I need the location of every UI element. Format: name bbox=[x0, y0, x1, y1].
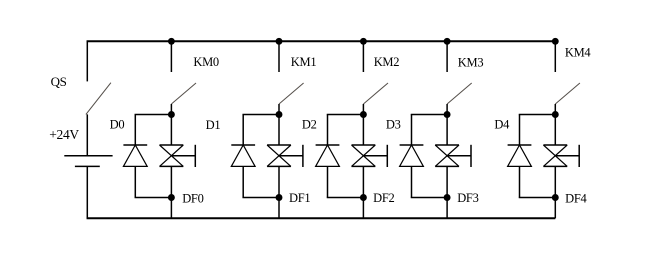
label KM2 bbox=[374, 55, 400, 69]
svg-text:DF1: DF1 bbox=[289, 191, 310, 205]
junction: top bus / branch 0 bbox=[168, 38, 175, 45]
label DF3 bbox=[457, 191, 478, 205]
wire: diode branch to lower node (horizontal) bbox=[519, 197, 556, 199]
wire: top stub of contact KM3 bbox=[446, 41, 448, 72]
svg-text:DF2: DF2 bbox=[373, 191, 394, 205]
wire: diode branch to lower node (horizontal) bbox=[411, 197, 447, 199]
wire: upper node to diode D1 (horizontal + down) bbox=[242, 115, 279, 146]
svg-text:DF3: DF3 bbox=[457, 191, 478, 205]
contact KM2 (NO contact blade) bbox=[363, 83, 388, 104]
contact KM3 (NO contact blade) bbox=[447, 83, 472, 104]
label +24V bbox=[49, 127, 79, 142]
label D4 bbox=[494, 118, 510, 132]
label D2 bbox=[302, 118, 317, 132]
junction/node DF2 bbox=[360, 194, 367, 201]
switch QS (disconnect blade) bbox=[86, 83, 111, 115]
triac/bidirectional device of branch 1 (bowtie with gate bar) bbox=[267, 145, 303, 167]
wire: left rail upper segment (top bus to QS) bbox=[86, 41, 88, 81]
junction: upper node of branch 0 bbox=[168, 111, 175, 118]
wire: diode branch to lower node (horizontal) bbox=[327, 197, 364, 199]
svg-text:KM4: KM4 bbox=[565, 45, 592, 59]
wire: upper node to diode D3 (horizontal + down) bbox=[411, 115, 447, 146]
wire: battery negative to bottom bus bbox=[86, 166, 88, 218]
wire: top stub of contact KM0 bbox=[170, 41, 172, 72]
contact KM1 (NO contact blade) bbox=[279, 83, 304, 104]
wire: node DF1 to bottom bus bbox=[278, 198, 280, 219]
wire: top stub of contact KM4 bbox=[554, 41, 556, 72]
label KM0 bbox=[193, 55, 219, 69]
junction: top bus / branch 1 bbox=[276, 38, 283, 45]
svg-text:+24V: +24V bbox=[49, 127, 79, 142]
triac/bidirectional device of branch 3 (bowtie with gate bar) bbox=[435, 145, 471, 167]
wire: contact KM3 to node row bbox=[446, 104, 448, 115]
svg-text:D1: D1 bbox=[206, 118, 221, 132]
junction/node DF4 bbox=[552, 194, 559, 201]
junction: upper node of branch 2 bbox=[360, 111, 367, 118]
wire: upper node down to bowtie top bbox=[170, 115, 172, 146]
wire: upper node down to bowtie top bbox=[446, 115, 448, 146]
junction/node DF3 bbox=[444, 194, 451, 201]
wire: top stub of contact KM1 bbox=[278, 41, 280, 72]
wire: upper node down to bowtie top bbox=[554, 115, 556, 146]
wire: QS to battery positive plate bbox=[86, 114, 88, 155]
wire: bowtie bottom to lower node bbox=[278, 166, 280, 197]
diode D4 (cathode bar up, triangle) bbox=[508, 145, 532, 166]
wire: bottom return bus bbox=[87, 217, 556, 219]
wire: bowtie bottom to lower node bbox=[446, 166, 448, 197]
junction: upper node of branch 1 bbox=[276, 111, 283, 118]
diode D0 (cathode bar up, triangle) bbox=[123, 145, 147, 166]
wire: diode D4 anode down to lower wire bbox=[519, 166, 521, 197]
junction: top bus / branch 4 bbox=[552, 38, 559, 45]
wire: diode branch to lower node (horizontal) bbox=[135, 197, 172, 199]
junction: top bus / branch 3 bbox=[444, 38, 451, 45]
label D0 bbox=[110, 118, 125, 132]
svg-text:KM3: KM3 bbox=[458, 56, 484, 70]
svg-text:KM0: KM0 bbox=[193, 55, 219, 69]
wire: node DF4 to bottom bus bbox=[554, 198, 556, 219]
wire: upper node to diode D0 (horizontal + down) bbox=[135, 115, 172, 146]
label DF1 bbox=[289, 191, 310, 205]
wire: diode D2 anode down to lower wire bbox=[327, 166, 329, 197]
wire: top stub of contact KM2 bbox=[362, 41, 364, 72]
label KM4 bbox=[565, 45, 592, 59]
label D3 bbox=[386, 117, 401, 131]
label DF4 bbox=[565, 192, 587, 206]
svg-text:KM1: KM1 bbox=[291, 55, 317, 69]
junction: upper node of branch 4 bbox=[552, 111, 559, 118]
wire: bowtie bottom to lower node bbox=[170, 166, 172, 197]
wire: node DF3 to bottom bus bbox=[446, 198, 448, 219]
battery BT, short negative plate bbox=[75, 165, 100, 167]
svg-text:D4: D4 bbox=[494, 118, 510, 132]
diode D1 (cathode bar up, triangle) bbox=[231, 145, 255, 166]
wire: diode D1 anode down to lower wire bbox=[242, 166, 244, 197]
wire: diode branch to lower node (horizontal) bbox=[242, 197, 279, 199]
wire: diode D3 anode down to lower wire bbox=[411, 166, 413, 197]
triac/bidirectional device of branch 0 (bowtie with gate bar) bbox=[160, 145, 196, 167]
label KM3 bbox=[458, 56, 484, 70]
triac/bidirectional device of branch 4 (bowtie with gate bar) bbox=[543, 145, 579, 167]
wire: upper node to diode D2 (horizontal + down) bbox=[327, 115, 364, 146]
wire: contact KM0 to node row bbox=[170, 104, 172, 115]
wire: upper node to diode D4 (horizontal + down) bbox=[519, 115, 556, 146]
wire: node DF2 to bottom bus bbox=[362, 198, 364, 219]
triac/bidirectional device of branch 2 (bowtie with gate bar) bbox=[352, 145, 388, 167]
wire: top supply bus bbox=[87, 40, 556, 42]
label D1 bbox=[206, 118, 221, 132]
wire: contact KM4 to node row bbox=[554, 104, 556, 115]
junction: upper node of branch 3 bbox=[444, 111, 451, 118]
svg-text:QS: QS bbox=[51, 74, 67, 89]
label DF2 bbox=[373, 191, 394, 205]
svg-text:D2: D2 bbox=[302, 118, 317, 132]
junction/node DF1 bbox=[276, 194, 283, 201]
wire: diode D0 anode down to lower wire bbox=[134, 166, 136, 197]
diode D2 (cathode bar up, triangle) bbox=[316, 145, 340, 166]
wire: contact KM1 to node row bbox=[278, 104, 280, 115]
label DF0 bbox=[182, 191, 203, 205]
wire: upper node down to bowtie top bbox=[362, 115, 364, 146]
wire: bowtie bottom to lower node bbox=[554, 166, 556, 197]
svg-text:KM2: KM2 bbox=[374, 55, 400, 69]
wire: node DF0 to bottom bus bbox=[170, 198, 172, 219]
label QS bbox=[51, 74, 67, 89]
junction/node DF0 bbox=[168, 194, 175, 201]
label KM1 bbox=[291, 55, 317, 69]
wire: upper node down to bowtie top bbox=[278, 115, 280, 146]
wire: bowtie bottom to lower node bbox=[362, 166, 364, 197]
junction: top bus / branch 2 bbox=[360, 38, 367, 45]
wire: contact KM2 to node row bbox=[362, 104, 364, 115]
svg-text:DF0: DF0 bbox=[182, 191, 203, 205]
svg-text:D0: D0 bbox=[110, 118, 125, 132]
diode D3 (cathode bar up, triangle) bbox=[400, 145, 424, 166]
contact KM0 (NO contact blade) bbox=[171, 83, 196, 104]
battery BT (+24V source), long positive plate bbox=[64, 155, 112, 157]
svg-text:DF4: DF4 bbox=[565, 192, 587, 206]
svg-text:D3: D3 bbox=[386, 117, 401, 131]
contact KM4 (NO contact blade) bbox=[555, 83, 580, 104]
